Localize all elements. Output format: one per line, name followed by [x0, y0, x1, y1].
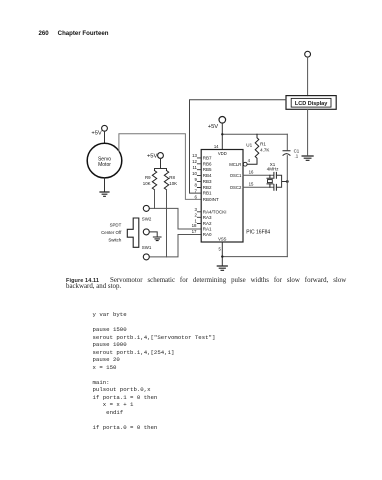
svg-text:R9: R9 — [145, 175, 151, 180]
crystal X1 — [267, 175, 273, 187]
svg-text:RB1: RB1 — [203, 191, 212, 196]
wire caps to node — [276, 175, 287, 187]
label X1 4MHz — [267, 162, 280, 172]
label SPDT Center Off Switch — [101, 222, 122, 242]
svg-text:RA3: RA3 — [203, 215, 212, 220]
svg-text:RA2: RA2 — [203, 221, 212, 226]
junction (osc node) — [286, 180, 289, 183]
wire R9 to SW2 node — [154, 190, 156, 209]
svg-text:9: 9 — [195, 177, 198, 182]
svg-text:RB3: RB3 — [203, 179, 212, 184]
LCD Display module — [286, 96, 336, 110]
switch actuator (SPDT lever) — [127, 218, 139, 247]
program listing — [93, 311, 216, 431]
svg-text:MCLR: MCLR — [229, 162, 241, 167]
resistor R8 — [164, 171, 168, 190]
svg-text:RB5: RB5 — [203, 167, 212, 172]
label R1 4.7K — [260, 142, 269, 153]
switch terminal SW2 — [143, 205, 149, 211]
wire servo signal to RB0/INT pin 6 — [119, 134, 201, 200]
svg-text:R8: R8 — [169, 175, 175, 180]
wire VSS to ground — [221, 242, 223, 265]
figure caption — [66, 278, 346, 291]
wire LCD to ground — [307, 109, 309, 155]
left pin numbers — [192, 153, 198, 234]
svg-text:2: 2 — [195, 213, 198, 218]
+5V rail wire — [222, 133, 287, 135]
svg-text:SW1: SW1 — [142, 245, 152, 250]
svg-text:LCD Display: LCD Display — [295, 101, 328, 107]
wire common to ground — [149, 232, 157, 237]
svg-text:Motor: Motor — [98, 162, 111, 168]
svg-text:7: 7 — [195, 188, 198, 193]
capacitor (OSC2 load) — [274, 184, 277, 190]
svg-text:Center Off: Center Off — [101, 230, 122, 235]
ground (switch common) — [153, 237, 161, 241]
pin 5 VSS label — [218, 237, 227, 252]
svg-text:12: 12 — [192, 159, 197, 164]
svg-text:PIC 16F84: PIC 16F84 — [246, 230, 270, 236]
svg-text:5: 5 — [218, 247, 221, 252]
svg-text:RB0INT: RB0INT — [203, 197, 219, 202]
wire T1 to motor — [104, 131, 106, 143]
svg-text:16: 16 — [249, 169, 254, 174]
wire T3 to VDD pin 14 — [221, 123, 223, 150]
svg-text:3: 3 — [195, 207, 198, 212]
svg-text:RB4: RB4 — [203, 173, 212, 178]
switch terminal SW1 — [143, 254, 149, 260]
wire SW1 to RA0 pin 17 — [149, 235, 201, 257]
wire LCD data to RB1 pin 7 — [190, 100, 287, 193]
svg-text:SW2: SW2 — [142, 217, 152, 222]
svg-text:RB2: RB2 — [203, 185, 212, 190]
svg-text:+5V: +5V — [91, 131, 102, 137]
svg-text:.1: .1 — [295, 154, 299, 159]
svg-text:17: 17 — [192, 229, 197, 234]
svg-text:RB6: RB6 — [203, 161, 212, 166]
svg-text:+5V: +5V — [208, 124, 219, 130]
junction (rail / VDD) — [221, 133, 223, 135]
MCLR labels — [229, 158, 250, 167]
svg-text:4MHz: 4MHz — [267, 166, 280, 171]
svg-text:SPDT: SPDT — [110, 222, 122, 227]
ground (below LCD) — [302, 156, 313, 160]
svg-text:RB7: RB7 — [203, 155, 212, 160]
pin stubs RB7-RB2 — [197, 158, 201, 188]
svg-text:11: 11 — [192, 165, 197, 170]
label C1 .1 — [294, 148, 300, 158]
svg-text:4.7K: 4.7K — [260, 147, 269, 152]
svg-text:10K: 10K — [169, 181, 177, 186]
OSC2 wire pin 15 — [243, 186, 273, 188]
wire R8 to SW1 node — [166, 190, 168, 257]
svg-text:15: 15 — [249, 181, 254, 186]
svg-text:VSS: VSS — [218, 237, 227, 242]
capacitor C1 — [283, 151, 290, 156]
OSC1 wire pin 16 — [243, 174, 273, 176]
svg-text:4: 4 — [248, 158, 251, 163]
svg-text:10: 10 — [192, 171, 197, 176]
wire SW2 to RA1 pin 18 — [149, 208, 201, 229]
IC U1 PIC 16F84 — [201, 150, 243, 243]
wire motor to ground — [104, 178, 106, 192]
resistor R1 — [247, 134, 258, 164]
svg-text:14: 14 — [214, 144, 219, 149]
pin 14 VDD label — [214, 144, 227, 156]
capacitor (OSC1 load) — [274, 172, 277, 178]
wire rail down through C1 to bottom — [286, 134, 288, 256]
svg-text:U1: U1 — [246, 142, 252, 147]
svg-text:R1: R1 — [260, 142, 266, 147]
svg-text:Switch: Switch — [108, 238, 121, 243]
svg-text:6: 6 — [195, 195, 198, 200]
junction (VSS / return) — [221, 255, 223, 257]
label R9 10K — [143, 175, 151, 186]
ground (servo motor) — [100, 192, 109, 196]
bottom return wire — [222, 256, 287, 258]
svg-text:RA0: RA0 — [203, 232, 212, 237]
wire T4 to LCD — [307, 57, 309, 95]
terminal +5V T1 (servo) — [102, 125, 108, 131]
svg-text:18: 18 — [192, 223, 197, 228]
svg-text:RA4/TOCKI: RA4/TOCKI — [203, 209, 227, 214]
svg-text:10K: 10K — [143, 181, 151, 186]
svg-text:VDD: VDD — [218, 151, 227, 156]
MCLR pin 4 circle — [243, 162, 247, 166]
svg-text:OSC2: OSC2 — [230, 185, 242, 190]
terminal +5V T3 (VDD) — [219, 117, 226, 124]
svg-text:8: 8 — [195, 183, 198, 188]
svg-text:13: 13 — [192, 153, 197, 158]
terminal +5V T4 (top right) — [305, 51, 311, 57]
svg-text:+5V: +5V — [147, 153, 158, 159]
wire T2 to pullup pair — [155, 158, 167, 170]
pin stubs RA4-RA2 — [197, 212, 201, 224]
switch common terminal — [143, 229, 149, 235]
left port labels — [203, 155, 227, 237]
servo motor M1 — [87, 143, 122, 178]
page header — [39, 30, 109, 37]
ground (VSS) — [217, 266, 227, 270]
svg-text:RA1: RA1 — [203, 227, 212, 232]
svg-text:OSC1: OSC1 — [230, 173, 242, 178]
terminal +5V T2 (pullups) — [158, 153, 164, 159]
label R8 10K — [169, 175, 177, 186]
resistor R9 — [152, 171, 156, 190]
OSC labels — [230, 169, 254, 190]
